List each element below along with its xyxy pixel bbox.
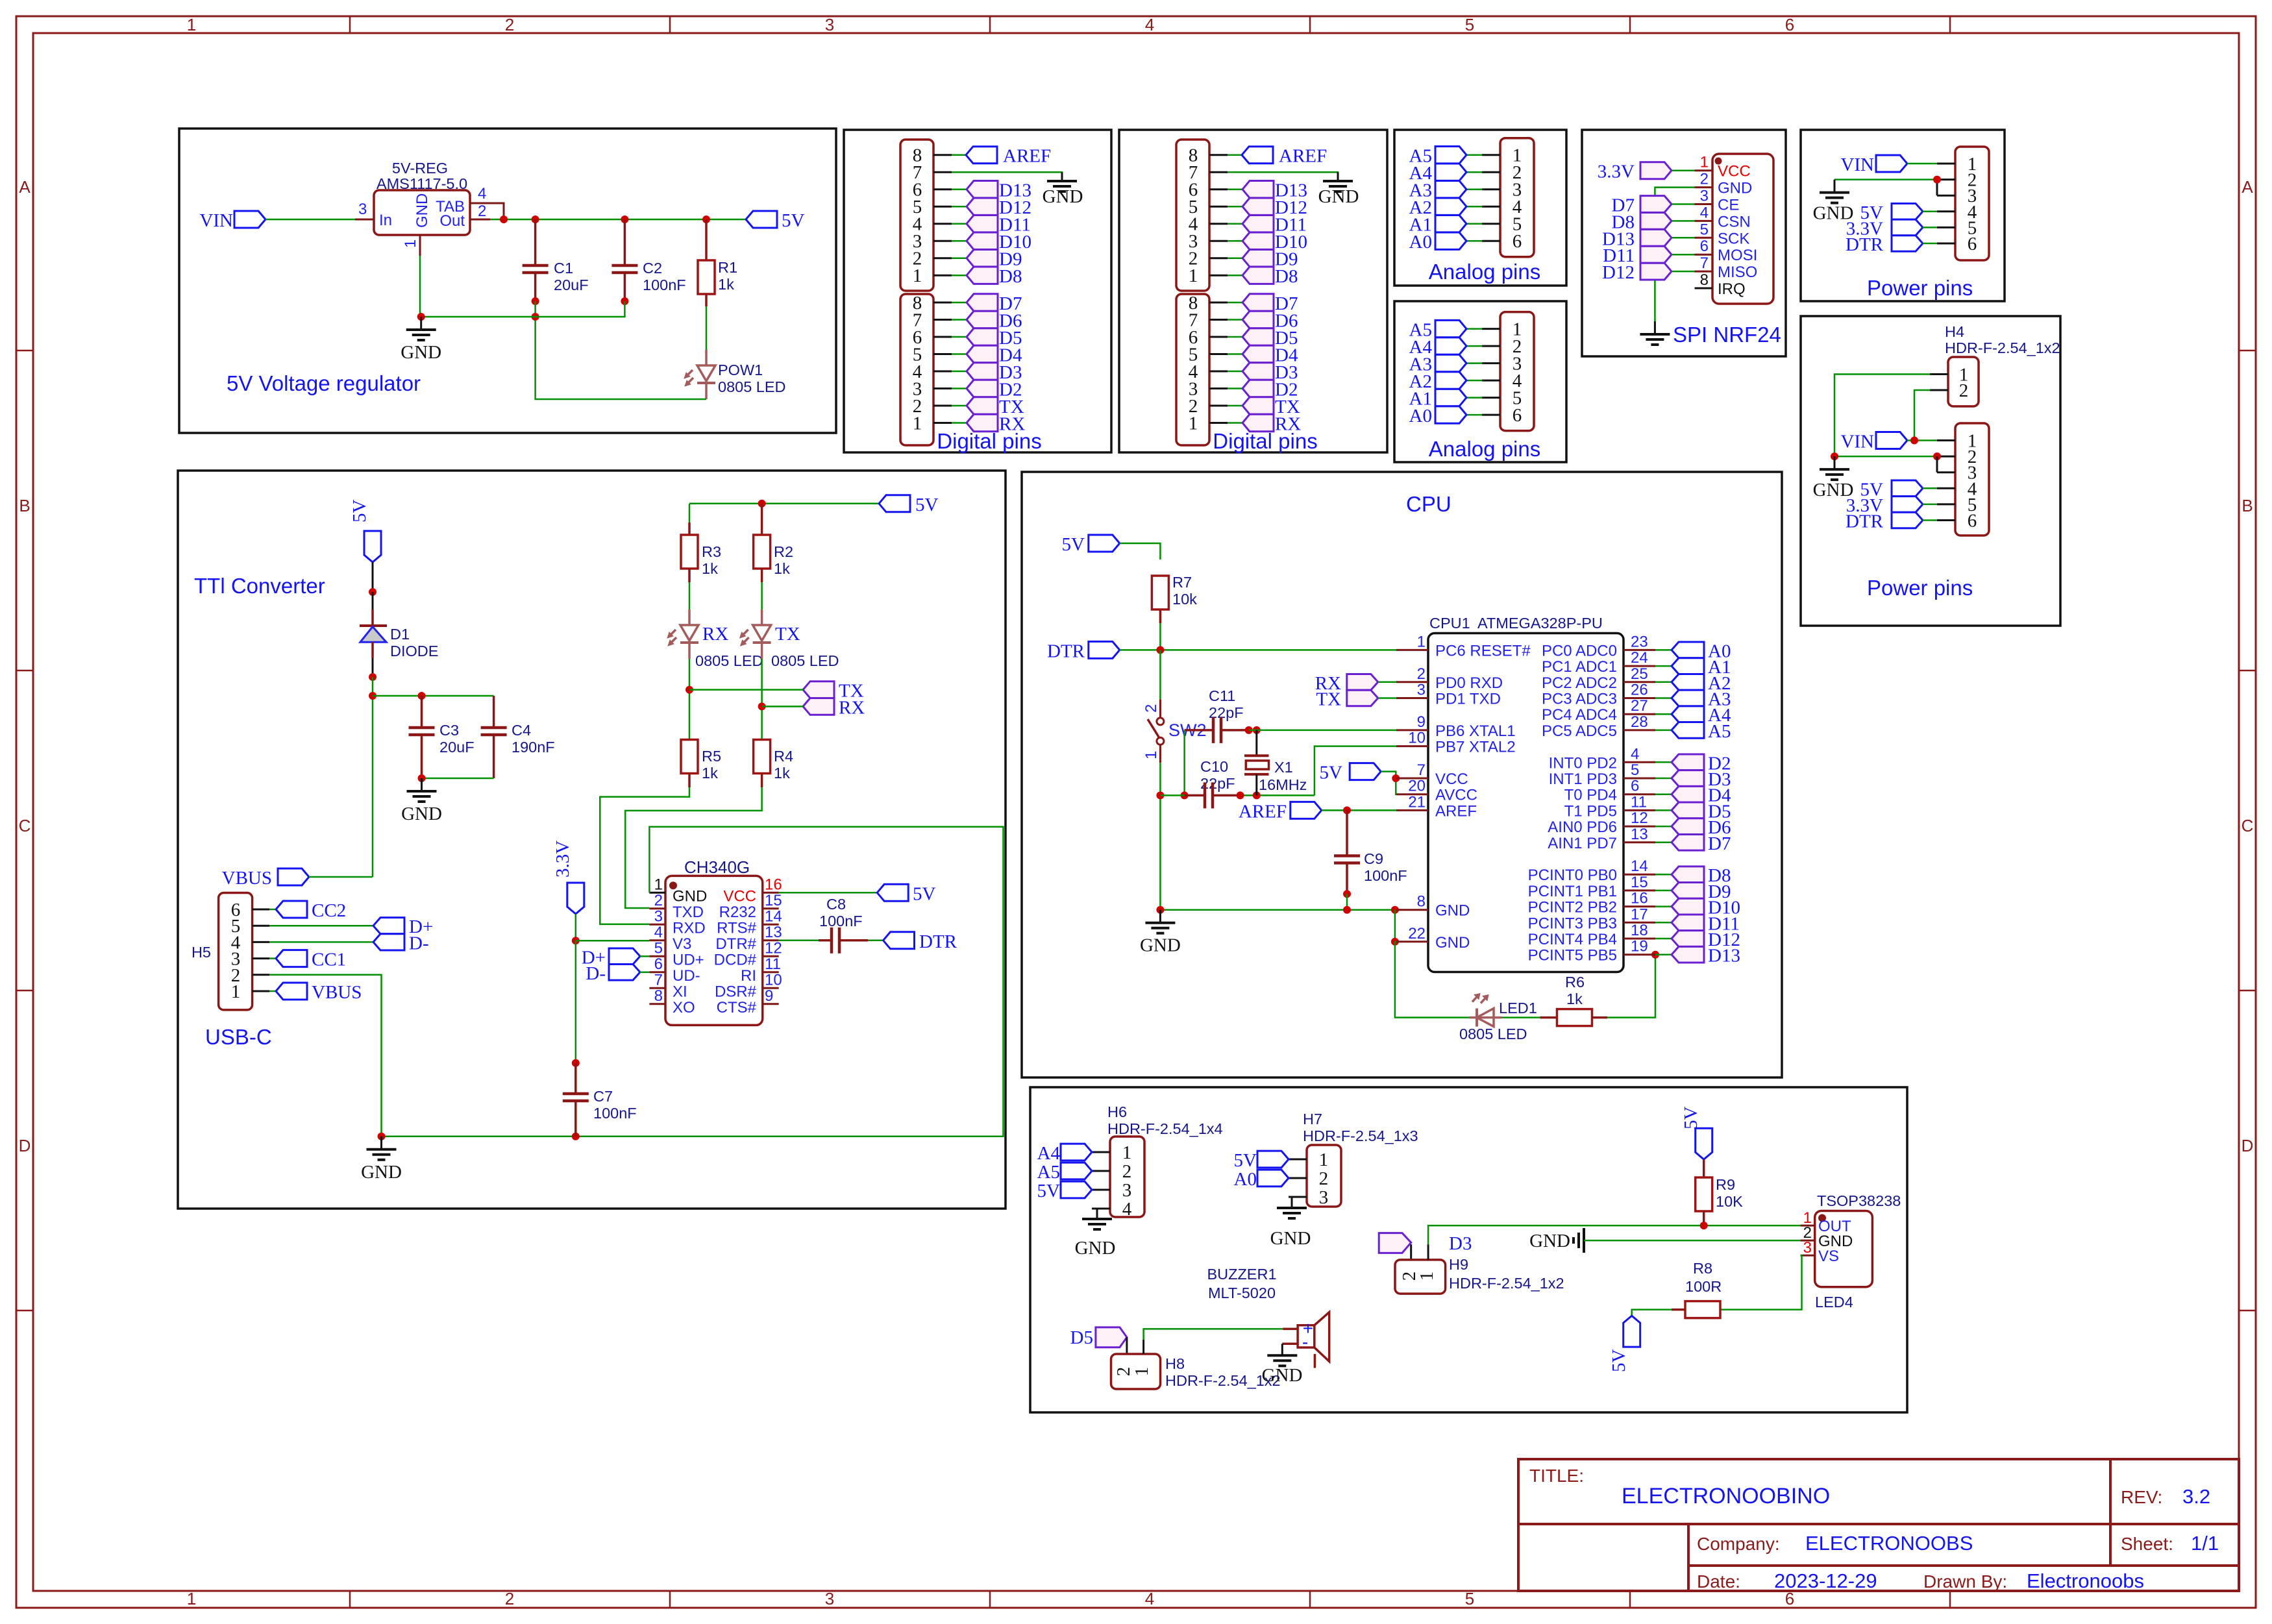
wire DTR (bottom) <box>1923 519 1937 521</box>
IO flag D13 (NRF) <box>1602 228 1672 249</box>
wire XTAL2 <box>1315 746 1396 796</box>
svg-text:6: 6 <box>1513 405 1522 426</box>
svg-text:5V-REG: 5V-REG <box>392 160 448 177</box>
svg-text:16MHz: 16MHz <box>1259 776 1307 793</box>
svg-text:TSOP38238: TSOP38238 <box>1817 1192 1901 1209</box>
svg-text:PC0 ADC0: PC0 ADC0 <box>1542 642 1617 659</box>
crystal X1 16MHz <box>1244 730 1307 796</box>
svg-text:GND: GND <box>1262 1365 1303 1386</box>
wire R3 to RX LED <box>688 569 691 609</box>
net flag A5 (H6) <box>1037 1162 1092 1183</box>
svg-text:6: 6 <box>1785 15 1794 34</box>
svg-text:C7: C7 <box>593 1088 613 1105</box>
pin 16 PCINT2 PB2 stub (CPU1) <box>1528 890 1655 917</box>
pin 5 stub (power bottom) <box>1937 503 1955 505</box>
pin 3 stub H6 <box>1092 1189 1110 1191</box>
wire TAB to Out <box>490 203 504 219</box>
resistor R1 1k <box>698 219 737 294</box>
svg-text:VCC: VCC <box>1718 163 1751 180</box>
pin 8 stub (group A) <box>933 154 966 156</box>
svg-text:DIODE: DIODE <box>390 643 438 659</box>
wire DTR# to C8 <box>779 940 819 942</box>
resistor R6 1k <box>1540 974 1592 1026</box>
pin 1 GND stub <box>402 235 420 256</box>
pin 4 CSN stub <box>1695 204 1751 230</box>
pin 1 stub H4 <box>1930 373 1948 375</box>
pin 21 AREF stub (CPU1) <box>1396 793 1477 820</box>
svg-text:R5: R5 <box>702 748 721 765</box>
svg-text:5V Voltage regulator: 5V Voltage regulator <box>227 371 421 395</box>
svg-text:1k: 1k <box>774 765 790 781</box>
pin 2 stub (power top) <box>1937 178 1955 180</box>
net flag VBUS (pin1) <box>269 982 362 1003</box>
svg-text:HDR-F-2.54_1x2: HDR-F-2.54_1x2 <box>1449 1275 1564 1292</box>
pin 26 PC3 ADC3 stub (CPU1) <box>1542 682 1655 708</box>
svg-text:GND: GND <box>1435 934 1470 952</box>
net flag A5 <box>1409 146 1466 167</box>
svg-text:A5: A5 <box>1037 1162 1060 1183</box>
node D13-R6 <box>1651 951 1659 959</box>
IO flag D3 (CPU1) <box>1655 769 1731 790</box>
IO flag D9 (CPU1) <box>1655 881 1731 902</box>
svg-text:D13: D13 <box>1708 946 1740 966</box>
svg-text:C9: C9 <box>1364 850 1383 867</box>
svg-text:GND: GND <box>1318 186 1359 207</box>
ground (power bottom) <box>1813 456 1854 500</box>
svg-text:1k: 1k <box>1566 990 1583 1007</box>
wire R1 to POW1 <box>705 294 708 350</box>
IO flag D10 <box>1242 232 1307 252</box>
capacitor C8 100nF <box>819 896 868 953</box>
IO flag D4 <box>1242 345 1298 366</box>
svg-text:A0: A0 <box>1409 232 1432 252</box>
svg-text:AREF: AREF <box>1279 146 1327 167</box>
pin 5 stub (analog) <box>1466 223 1500 225</box>
svg-text:DTR: DTR <box>919 931 957 952</box>
svg-text:1: 1 <box>1700 154 1709 171</box>
svg-text:D3: D3 <box>1449 1233 1472 1254</box>
net flag A0 (H7) <box>1234 1169 1289 1190</box>
node gnd rail left <box>1156 906 1164 914</box>
wire pin3 to pin2 (bottom) <box>1936 456 1938 473</box>
svg-text:Electronoobs: Electronoobs <box>2027 1569 2144 1592</box>
svg-text:GND: GND <box>401 342 441 363</box>
svg-text:PB7 XTAL2: PB7 XTAL2 <box>1435 739 1516 756</box>
pin 3 stub (group B) <box>1209 388 1242 389</box>
pin 7 MISO stub <box>1695 254 1758 281</box>
node X1 bottom <box>1253 791 1261 799</box>
IO flag D5 <box>1242 328 1298 349</box>
pin 7 XI stub (CH340G) <box>649 971 687 1000</box>
svg-text:MLT-5020: MLT-5020 <box>1208 1285 1276 1301</box>
svg-text:1: 1 <box>913 413 922 434</box>
capacitor C10 22pF <box>1185 758 1241 808</box>
svg-text:1: 1 <box>1189 265 1198 286</box>
section box: SPI NRF24 <box>1582 130 1786 356</box>
svg-text:25: 25 <box>1631 665 1648 683</box>
pin 4 stub (analog) <box>1466 380 1500 382</box>
svg-text:ATMEGA328P-PU: ATMEGA328P-PU <box>1477 615 1603 632</box>
svg-text:UD+: UD+ <box>673 951 704 968</box>
svg-text:VS: VS <box>1818 1248 1839 1265</box>
pin 12 DCD# stub (CH340G) <box>714 939 782 968</box>
section box: Analog pins (bottom) <box>1394 301 1566 462</box>
connector H7 HDR-F-2.54_1x3 <box>1303 1111 1418 1208</box>
resistor R4 1k <box>754 740 793 782</box>
svg-text:1: 1 <box>1416 1272 1437 1281</box>
svg-text:27: 27 <box>1631 697 1648 715</box>
svg-text:AMS1117-5.0: AMS1117-5.0 <box>377 175 467 192</box>
pin 7 stub (group A) <box>1209 171 1242 173</box>
wire regulator gnd rail <box>420 256 624 317</box>
svg-text:1k: 1k <box>702 560 718 577</box>
svg-text:9: 9 <box>1417 713 1426 731</box>
svg-text:7: 7 <box>1417 761 1426 779</box>
svg-text:Digital pins: Digital pins <box>937 429 1041 453</box>
svg-text:R232: R232 <box>719 904 756 921</box>
pin 6 stub (group B) <box>933 336 966 338</box>
ground (power top) <box>1813 180 1854 224</box>
IC TSOP38238 / LED4 body <box>1815 1192 1901 1310</box>
title block text Sheet: 1/1 <box>2121 1532 2219 1555</box>
svg-text:D5: D5 <box>1070 1327 1093 1348</box>
svg-text:B: B <box>2241 496 2253 515</box>
svg-text:9: 9 <box>765 987 773 1005</box>
IO flag D8 <box>967 266 1022 287</box>
wire D3 to H9 pin2 <box>1410 1244 1412 1260</box>
svg-text:GND: GND <box>361 1162 402 1183</box>
pin 1 stub (group A) <box>933 275 966 277</box>
svg-text:XO: XO <box>673 999 695 1016</box>
svg-text:1: 1 <box>231 981 241 1002</box>
pin 2 Out stub <box>470 203 490 220</box>
node VIN-H4 junction <box>1910 437 1918 445</box>
svg-text:C8: C8 <box>826 896 846 913</box>
svg-text:C4: C4 <box>512 722 531 739</box>
pin 2 TXD stub (CH340G) <box>649 892 704 921</box>
pin 27 PC4 ADC4 stub (CPU1) <box>1542 697 1655 724</box>
node GND left (power bottom) <box>1831 452 1838 460</box>
svg-text:A5: A5 <box>1708 721 1731 742</box>
svg-text:3: 3 <box>358 201 367 218</box>
svg-text:C: C <box>2241 816 2254 835</box>
ground (buzzer) <box>1262 1355 1303 1386</box>
pin 2 stub (group A) <box>1209 257 1242 259</box>
svg-text:In: In <box>379 212 392 229</box>
IO flag D3 <box>967 362 1022 383</box>
pin 6 stub (group A) <box>1209 188 1242 190</box>
wire DTR to RESET <box>1120 649 1396 651</box>
svg-text:0805 LED: 0805 LED <box>1459 1026 1527 1042</box>
wire pin22 stub link <box>1395 941 1396 943</box>
pin 1 stub (analog) <box>1466 154 1500 156</box>
svg-text:2: 2 <box>1319 1168 1329 1189</box>
svg-text:19: 19 <box>1631 938 1648 955</box>
svg-text:PCINT1 PB1: PCINT1 PB1 <box>1528 883 1617 900</box>
pin 11 T1 PD5 stub (CPU1) <box>1564 793 1655 820</box>
svg-text:11: 11 <box>1631 793 1647 811</box>
svg-text:1: 1 <box>1131 1367 1152 1377</box>
svg-text:5V: 5V <box>1320 763 1343 783</box>
svg-text:3: 3 <box>1803 1239 1812 1257</box>
net flag VIN <box>199 210 265 231</box>
pin 5 stub (analog) <box>1466 397 1500 399</box>
IO flag D12 (CPU1) <box>1655 929 1740 950</box>
wire NRF GND <box>1655 188 1694 328</box>
wire pin3 to pin2 <box>1936 180 1938 196</box>
IO flag TX <box>1242 397 1300 417</box>
svg-text:R9: R9 <box>1716 1176 1735 1193</box>
IO flag TX (CPU) <box>1316 689 1377 710</box>
svg-text:C1: C1 <box>554 260 573 277</box>
wire VIN pin1 <box>1907 163 1937 165</box>
pin 4 TAB stub <box>470 185 490 203</box>
pin 20 AVCC stub (CPU1) <box>1396 778 1477 804</box>
IO flag D12 <box>967 197 1031 218</box>
svg-text:6: 6 <box>654 955 663 973</box>
pin 11 RI stub (CH340G) <box>741 955 781 985</box>
pin 5 SCK stub <box>1695 221 1750 247</box>
pin 4 stub (power top) <box>1937 210 1955 212</box>
pin 2 stub (group B) <box>1209 405 1242 407</box>
svg-text:VIN: VIN <box>1840 154 1874 175</box>
node AREF-C9 <box>1343 806 1351 814</box>
pin 5 stub (group B) <box>933 353 966 355</box>
net flag 5V (TTl right) <box>879 495 939 515</box>
pin 1 stub H6 <box>1092 1151 1110 1153</box>
wire 3.3V to VCC <box>1672 169 1695 171</box>
pin 1 stub (group A) <box>1209 275 1242 277</box>
wire CH340 GND loop <box>382 827 1004 1137</box>
svg-text:190nF: 190nF <box>512 739 555 756</box>
pin 1 stub H9 <box>1427 1244 1429 1260</box>
svg-text:MISO: MISO <box>1718 264 1757 281</box>
svg-text:T1 PD5: T1 PD5 <box>1564 802 1617 820</box>
pin 18 PCINT4 PB4 stub (CPU1) <box>1528 922 1655 948</box>
net flag A3 <box>1409 354 1466 375</box>
capacitor C2 100nF <box>611 219 685 301</box>
pin 3 stub (power top) <box>1937 195 1955 197</box>
wire R7 to DTR node <box>1159 609 1162 650</box>
IO flag D5 (CPU1) <box>1655 801 1731 822</box>
pin 5 INT1 PD3 stub (CPU1) <box>1549 761 1655 788</box>
wire pin7 to GND <box>1228 172 1338 176</box>
svg-text:SPI NRF24: SPI NRF24 <box>1673 323 1781 347</box>
pin 12 AIN0 PD6 stub (CPU1) <box>1548 809 1655 836</box>
connector SPI NRF24 header <box>1712 154 1773 304</box>
node R2 top <box>758 500 766 508</box>
pin 1 PC6 RESET# stub (CPU1) <box>1396 633 1531 659</box>
IO flag D11 (NRF) <box>1603 245 1672 266</box>
svg-text:Sheet:: Sheet: <box>2121 1534 2173 1554</box>
pin 3 stub (group B) <box>933 388 966 389</box>
connector H8 HDR-F-2.54_1x2 <box>1111 1354 1281 1389</box>
ground (NRF) <box>1640 321 1670 345</box>
svg-text:4: 4 <box>1145 15 1154 34</box>
svg-text:1k: 1k <box>702 765 718 781</box>
svg-text:PCINT3 PB3: PCINT3 PB3 <box>1528 915 1617 932</box>
IO flag D6 (CPU1) <box>1655 817 1731 838</box>
svg-text:D12: D12 <box>1602 262 1635 283</box>
svg-text:0805 LED: 0805 LED <box>771 652 839 669</box>
svg-text:VCC: VCC <box>723 887 756 905</box>
svg-text:CE: CE <box>1718 197 1739 214</box>
node RX net <box>758 702 766 710</box>
IO flag D9 <box>1242 249 1298 270</box>
svg-text:HDR-F-2.54_1x3: HDR-F-2.54_1x3 <box>1303 1127 1418 1144</box>
svg-text:VBUS: VBUS <box>312 982 362 1003</box>
svg-text:5: 5 <box>1465 1589 1474 1608</box>
svg-text:5: 5 <box>654 939 663 957</box>
svg-text:PB6 XTAL1: PB6 XTAL1 <box>1435 722 1516 740</box>
pin 3 stub (analog) <box>1466 362 1500 364</box>
svg-text:RTS#: RTS# <box>717 919 757 937</box>
node C3 gnd <box>418 774 426 782</box>
net flag DTR (TTl) <box>883 931 957 952</box>
svg-text:HDR-F-2.54_1x2: HDR-F-2.54_1x2 <box>1945 339 2060 356</box>
section box: CPU <box>1022 472 1782 1077</box>
ground (digital pins) <box>1043 172 1083 207</box>
node C7 top <box>572 1059 580 1067</box>
svg-text:CC2: CC2 <box>312 900 346 921</box>
IO flag A1 (CPU1) <box>1655 657 1731 678</box>
svg-text:6: 6 <box>1631 778 1639 795</box>
wire TX LED down <box>761 659 763 739</box>
svg-text:AIN0 PD6: AIN0 PD6 <box>1548 818 1617 836</box>
pin 15 R232 stub (CH340G) <box>719 892 782 921</box>
pin 8 XO stub (CH340G) <box>649 987 695 1016</box>
wire VCC to 5V <box>779 892 878 894</box>
IO flag D3 <box>1242 362 1298 383</box>
node gnd rail C7 <box>572 1133 580 1140</box>
svg-text:PCINT5 PB5: PCINT5 PB5 <box>1528 947 1617 965</box>
svg-text:TXD: TXD <box>673 904 704 921</box>
net flag 5V (CPU R7) <box>1062 534 1120 555</box>
svg-text:CPU: CPU <box>1406 492 1451 516</box>
wire GND pin2 <box>1834 178 1937 180</box>
svg-text:GND: GND <box>401 804 442 824</box>
svg-text:USB-C: USB-C <box>205 1025 272 1049</box>
net flag A4 (H6) <box>1037 1143 1092 1164</box>
section box: Analog pins (top) <box>1394 130 1566 286</box>
svg-text:C: C <box>19 816 31 835</box>
ground (digital pins) <box>1318 172 1359 207</box>
ground (H7) <box>1270 1208 1311 1249</box>
pin 13 DTR# stub (CH340G) <box>715 924 782 953</box>
svg-text:10k: 10k <box>1172 591 1197 608</box>
wire VBUS to D1 rail <box>309 876 373 878</box>
IO flag D11 <box>1242 215 1307 236</box>
capacitor C4 190nF <box>481 696 555 778</box>
svg-text:R7: R7 <box>1172 574 1192 591</box>
pin 4 stub (group A) <box>1209 223 1242 225</box>
svg-text:4: 4 <box>654 924 663 941</box>
node C2 top <box>621 215 628 223</box>
wire C9 to gnd rail <box>1346 894 1348 910</box>
svg-text:ELECTRONOOBS: ELECTRONOOBS <box>1805 1532 1973 1555</box>
resistor R8 100R <box>1685 1260 1722 1318</box>
svg-text:B: B <box>19 496 30 515</box>
wire C1 to gnd rail <box>534 301 536 317</box>
net flag AREF <box>1242 146 1327 167</box>
node C3-C4 tap <box>369 692 377 700</box>
svg-text:20uF: 20uF <box>439 739 475 756</box>
wire pin2 to gnd rail <box>269 975 382 1137</box>
svg-text:1: 1 <box>1142 751 1160 759</box>
IC CPU1 ATMEGA328P-PU body <box>1428 615 1624 972</box>
wire XTAL1 <box>1249 730 1396 732</box>
svg-text:Digital pins: Digital pins <box>1213 429 1317 453</box>
svg-text:GND: GND <box>673 887 707 905</box>
svg-text:UD-: UD- <box>673 967 700 985</box>
node pin2-pin3 (power top) <box>1933 176 1941 184</box>
IO flag D7 (CPU1) <box>1655 833 1731 854</box>
IO flag TX (TTl) <box>803 681 864 702</box>
pin 1 stub (power top) <box>1937 163 1955 165</box>
net flag A4 <box>1409 337 1466 358</box>
IO flag D10 <box>967 232 1031 252</box>
pin 2 stub H6 <box>1092 1170 1110 1172</box>
svg-text:INT1 PD3: INT1 PD3 <box>1549 770 1617 788</box>
wire D- to UD- <box>640 972 649 974</box>
net flag 5V (power bottom) <box>1860 479 1923 500</box>
svg-text:5V: 5V <box>913 883 936 904</box>
wire 5V (bottom) <box>1923 487 1937 489</box>
net flag A5 <box>1409 320 1466 341</box>
pin 4 stub (group B) <box>933 371 966 373</box>
svg-text:1: 1 <box>1122 1142 1132 1163</box>
IO flag D12 <box>1242 197 1307 218</box>
node C9 bottom <box>1343 890 1351 898</box>
net flag A0 <box>1409 406 1466 426</box>
svg-text:4: 4 <box>1700 204 1709 221</box>
wire 5V rail <box>490 219 746 221</box>
svg-text:H8: H8 <box>1165 1355 1185 1372</box>
svg-text:PC5 ADC5: PC5 ADC5 <box>1542 722 1617 740</box>
section box: TTl Converter <box>178 471 1006 1209</box>
buzzer BUZZER1 symbol <box>1282 1312 1329 1368</box>
svg-text:H4: H4 <box>1945 323 1964 340</box>
wire gnd to pin22 <box>1394 910 1396 942</box>
wire H6 pin4 to gnd <box>1097 1209 1110 1219</box>
svg-text:CTS#: CTS# <box>717 999 757 1016</box>
pin 16 VCC stub (CH340G) <box>723 876 782 905</box>
pin 9 PB6 XTAL1 stub (CPU1) <box>1396 713 1516 740</box>
svg-text:Out: Out <box>439 212 465 230</box>
IO flag D6 <box>967 311 1022 332</box>
node C1 top <box>532 215 539 223</box>
node pin2-pin3 (power bottom) <box>1933 452 1941 460</box>
node C10 row left <box>1156 791 1164 799</box>
pin 8 stub (group A) <box>1209 154 1242 156</box>
pin 14 RTS# stub (CH340G) <box>717 907 782 937</box>
net flag 5V (power top) <box>1860 203 1923 223</box>
svg-text:D8: D8 <box>1275 266 1298 287</box>
net flag 5V (R9) <box>1681 1107 1712 1160</box>
svg-text:3: 3 <box>825 15 834 34</box>
pin 28 PC5 ADC5 stub (CPU1) <box>1542 713 1655 740</box>
svg-text:10K: 10K <box>1716 1193 1743 1210</box>
pin 2 stub (power bottom) <box>1937 456 1955 458</box>
svg-text:3.2: 3.2 <box>2182 1485 2210 1508</box>
IO flag D4 <box>967 345 1022 366</box>
pin 10 DSR# stub (CH340G) <box>715 971 782 1000</box>
svg-text:REV:: REV: <box>2121 1487 2162 1507</box>
connector H4 HDR-F-2.54_1x2 <box>1945 323 2060 406</box>
svg-text:5: 5 <box>1631 761 1639 779</box>
connector power header 1x6 (bottom) <box>1955 423 1989 535</box>
net flag A1 <box>1409 215 1466 236</box>
